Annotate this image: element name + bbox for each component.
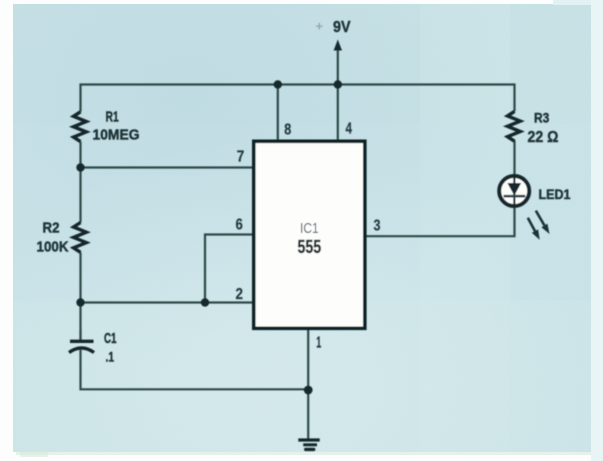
label C1 value	[104, 330, 117, 365]
svg-text:2: 2	[236, 286, 244, 303]
node: pin1 / bottom rail junction	[304, 386, 313, 395]
node: R1-R2 / pin7 junction	[76, 163, 84, 171]
svg-text:C1: C1	[104, 330, 117, 347]
label R3 value	[528, 111, 559, 146]
svg-text:9V: 9V	[333, 19, 351, 36]
node: +9V / pin4 junction	[334, 80, 342, 88]
wire: R3 bottom to LED top	[513, 141, 515, 176]
resistor R2	[74, 223, 87, 253]
wire: pin 8 vertical	[277, 85, 279, 140]
svg-text:3: 3	[374, 218, 381, 235]
label R1 value	[93, 110, 140, 144]
svg-text:22 Ω: 22 Ω	[528, 129, 559, 146]
wire: left vertical R2 bottom to C1 top (through pin2 node)	[79, 252, 81, 340]
+9V arrow head	[334, 40, 342, 51]
capacitor C1	[69, 330, 94, 353]
svg-text:LED1: LED1	[539, 187, 571, 202]
svg-text:1: 1	[316, 335, 321, 352]
LED1 symbol	[499, 176, 529, 206]
wire: C1 bottom to bottom rail and across to ground node	[81, 350, 309, 389]
wire: pin 4 vertical	[337, 85, 339, 140]
svg-text:8: 8	[284, 122, 291, 139]
subtle shading overlays	[13, 4, 591, 124]
resistor R3	[508, 111, 521, 141]
label IC1 555	[298, 221, 322, 257]
lighter blue top-right corner band	[553, 0, 591, 5]
wire: pin 6 horizontal and drop to pin2 wire	[205, 235, 253, 303]
label R2 value	[37, 221, 69, 256]
right lighter strip	[591, 0, 603, 461]
svg-text:.1: .1	[106, 350, 115, 365]
faint scan shadow below panel	[16, 452, 591, 455]
svg-text:6: 6	[236, 217, 243, 234]
svg-text:R2: R2	[43, 221, 60, 237]
wire: top rail from left loop corner to R3 corner	[81, 85, 515, 112]
node: R2-C1 / pin2 junction	[76, 298, 84, 306]
node: pin6 drop on pin2 wire	[201, 298, 209, 306]
svg-text:100K: 100K	[37, 239, 69, 256]
IC IC1 555 timer box	[254, 141, 365, 328]
ground	[298, 440, 319, 449]
svg-text:R1: R1	[106, 110, 119, 126]
wire: +9V supply lead	[337, 49, 339, 85]
wire: pin 2 horizontal	[81, 301, 254, 303]
svg-text:555: 555	[298, 237, 322, 257]
node: pin8 / top rail junction	[274, 80, 282, 88]
svg-text:7: 7	[237, 149, 245, 166]
LED light arrow left	[528, 218, 540, 240]
wire: pin 1 vertical to ground	[307, 330, 309, 440]
svg-text:4: 4	[346, 121, 353, 138]
svg-text:10MEG: 10MEG	[93, 128, 140, 144]
svg-text:+: +	[316, 19, 324, 34]
wire: left vertical R1 bottom to R2 top (through pin7 node)	[79, 142, 81, 223]
resistor R1	[74, 112, 87, 142]
svg-text:IC1: IC1	[300, 221, 319, 237]
wire: pin 7 horizontal	[81, 166, 254, 168]
LED light arrow right	[536, 211, 550, 234]
svg-text:R3: R3	[534, 111, 550, 126]
label +9V	[316, 19, 351, 37]
wire: LED bottom down and left to pin 3	[367, 208, 515, 236]
